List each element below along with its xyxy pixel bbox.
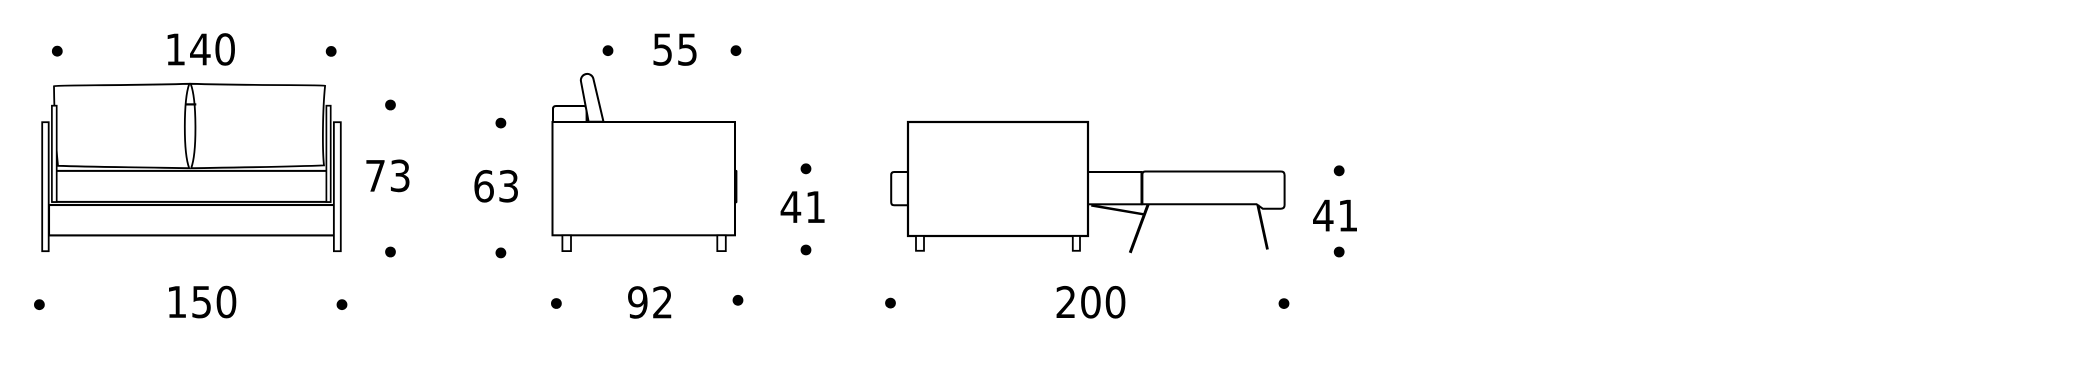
dot 41mid-bottom [801,245,812,256]
mattress [1142,172,1284,209]
folding strut [1091,205,1143,214]
dot 41mid-top [801,163,812,174]
dot 41right-bottom [1334,247,1345,258]
dimension label "200" [1057,286,1126,319]
body right foot [1073,236,1080,251]
dot 63-top [496,118,507,129]
left back cushion [54,84,189,168]
tilted backrest bar [581,74,604,122]
dot 150-right [337,299,348,310]
dot 200-right [1279,298,1290,309]
dot 41right-top [1334,165,1345,176]
dot 63-bottom [496,248,507,259]
dot 73-bottom [385,247,396,258]
inner right rail [326,106,330,202]
inner left rail [52,106,57,202]
seat mattress [53,171,331,202]
dot 150-left [34,299,45,310]
base frame box [49,205,334,235]
right back cushion [191,84,325,168]
dot 73-top [385,100,396,111]
dimension label "150" [169,286,236,319]
side left foot [562,235,571,251]
back frame bar visible in cushion gap [186,103,197,105]
dot 92-left [551,298,562,309]
dimension label "63" [474,170,518,203]
bed right leg [1258,205,1268,250]
bed deck section [1088,172,1142,204]
sofa body (back view) [908,122,1088,236]
body left foot [916,236,924,251]
outer right rail (leg) [334,122,341,251]
dimension label "41 right" [1313,200,1357,232]
dot 92-right [733,295,744,306]
dot 55-left [603,45,614,56]
dimension label "41 mid" [781,191,825,223]
dimension label "73" [366,160,409,193]
bed left leg [1130,204,1148,253]
dimension label "92" [628,286,671,319]
pull handle [735,170,738,203]
dimension label "55" [654,34,697,66]
rear tab [891,172,908,205]
dot 200-left [885,298,896,309]
dimension label "140" [168,33,235,66]
outer left rail (leg) [42,122,49,251]
side right foot [717,235,726,251]
armrest top box [553,106,587,122]
dot 140-right [326,46,337,57]
dot 55-right [731,45,742,56]
side body [553,122,736,235]
dot 140-left [52,46,63,57]
